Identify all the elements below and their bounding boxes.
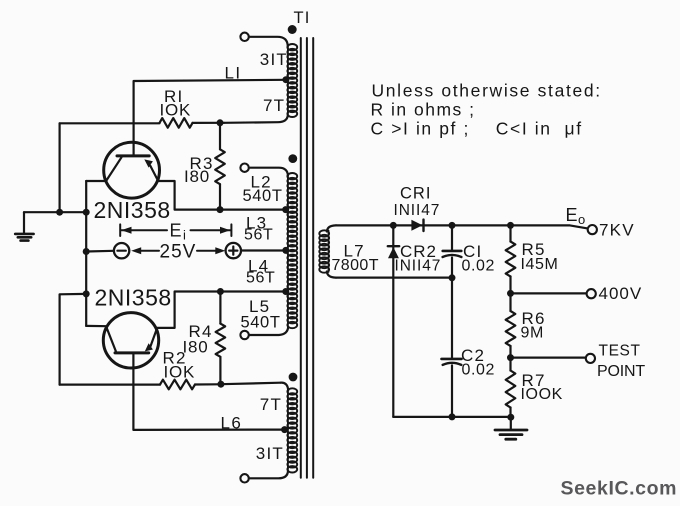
node R4 top junction (217, 288, 224, 295)
label C1 (463, 242, 482, 261)
label 540T (241, 314, 281, 332)
svg-text:LI: LI (225, 64, 242, 83)
wire plus to L3/L4 tap (241, 249, 286, 251)
label 7T (263, 96, 285, 115)
label L1 (225, 64, 242, 83)
node R2 branch junction (83, 290, 90, 297)
winding L7 (319, 230, 329, 272)
svg-text:E: E (566, 205, 578, 225)
svg-text:Unless otherwise stated:: Unless otherwise stated: (372, 81, 602, 101)
label 31T (260, 50, 288, 69)
node test point junction (507, 354, 514, 361)
wire test point (511, 357, 586, 359)
node L3/L4 tap (282, 247, 289, 254)
node ground junction (507, 414, 514, 421)
svg-text:POINT: POINT (597, 363, 645, 380)
wire L5 terminal to winding (249, 327, 288, 335)
node C1 branch (449, 222, 456, 229)
wire L7 bottom to C-string (336, 277, 452, 279)
winding 7T+31T (bottom) (287, 388, 297, 472)
wire to source minus (86, 250, 114, 253)
node L2/L3 tap (282, 206, 289, 213)
node R4 bottom junction (217, 381, 224, 388)
svg-text:IOK: IOK (164, 363, 196, 382)
node L1 tap (282, 76, 289, 83)
terminal L2 (240, 164, 248, 172)
wire ground rail (393, 416, 511, 418)
resistor R2 10K (60, 380, 218, 390)
capacitor C1 0.02 (443, 225, 462, 277)
wire L2 terminal to winding (249, 168, 288, 176)
label 180 R4 (183, 338, 209, 357)
label 31T bottom (256, 444, 284, 463)
T1 label (294, 9, 311, 27)
transistor Q2 2N1358 (103, 313, 158, 368)
arrow into minus (131, 247, 159, 254)
resistor R1 10K (60, 118, 224, 128)
diode CR1 1N1147 (411, 220, 423, 231)
wire ground run (24, 211, 86, 213)
node source minus junction (83, 248, 90, 255)
label C2 (461, 346, 485, 365)
svg-text:2NI358: 2NI358 (94, 197, 171, 223)
node C2 ground (449, 413, 456, 420)
label 180 R3 (184, 167, 210, 186)
svg-text:IOK: IOK (160, 101, 192, 120)
svg-text:i: i (183, 228, 186, 243)
label 7T bottom (260, 395, 282, 414)
winding 31T+7T (287, 44, 297, 117)
label 540T (243, 187, 283, 205)
node L6 tap (281, 426, 288, 433)
wire Q2 emitter (86, 325, 107, 328)
polarity dot winding group 1 (288, 25, 297, 34)
node R1-R3-7T junction (217, 119, 224, 126)
Ei dimension arrows (120, 224, 231, 236)
label 10K (160, 101, 192, 120)
label POINT (597, 363, 645, 380)
SeekIC watermark (561, 478, 678, 500)
label R1 (164, 87, 183, 106)
wire 400V (511, 292, 587, 294)
wire L7 bottom (327, 272, 336, 278)
terminal TEST POINT (586, 354, 595, 363)
diode CR2 1N1147 (388, 225, 399, 417)
svg-text:I45M: I45M (521, 256, 559, 273)
svg-text:540T: 540T (243, 187, 283, 205)
label 0.02 C1 (462, 258, 496, 275)
svg-text:540T: 540T (241, 314, 281, 332)
transistor Q1 2N1358 (104, 142, 160, 198)
label 56T (246, 270, 275, 287)
transformer T1 core (301, 38, 313, 478)
winding group1 bottom exit wire (224, 116, 288, 123)
label Q1 2N1358 (94, 197, 171, 223)
label 7KV (599, 221, 635, 240)
ground symbol right (495, 417, 527, 439)
svg-text:0.02: 0.02 (462, 362, 496, 379)
svg-text:2NI358: 2NI358 (95, 285, 172, 311)
svg-text:I80: I80 (184, 167, 210, 186)
svg-text:E: E (170, 221, 182, 241)
label Q2 2N1358 (95, 285, 172, 311)
label CR2 (400, 242, 437, 261)
label L7 (344, 242, 365, 261)
label 9M (521, 325, 544, 342)
label L6 (221, 414, 243, 433)
terminal top-left (240, 33, 248, 41)
winding group3 top entry wire (281, 383, 289, 391)
label 100K (521, 386, 563, 403)
label Ei (170, 221, 187, 243)
terminal 400V (587, 289, 596, 298)
node R5 branch (507, 222, 514, 229)
wire L1 and base lead Q1 (134, 80, 286, 155)
terminal bottom-left (240, 474, 248, 482)
svg-text:3IT: 3IT (256, 444, 284, 463)
resistor R6 9M (506, 293, 516, 357)
resistor R3 180 (215, 123, 225, 210)
node L4/L5 tap (282, 288, 289, 295)
terminal 7KV (588, 225, 597, 234)
polarity dot winding group 2 (288, 154, 297, 163)
svg-text:C >I in pf ; C<I in μf: C >I in pf ; C<I in μf (371, 119, 583, 139)
svg-text:R in ohms ;: R in ohms ; (371, 100, 476, 120)
wire R2 branch (60, 294, 87, 385)
wire C1 to C2 (451, 278, 453, 358)
node L7/C junction (449, 274, 456, 281)
label 56T (244, 227, 273, 244)
resistor R7 100K (506, 358, 516, 418)
polarity dot winding group 3 (289, 373, 298, 382)
winding L2-L5 (287, 173, 297, 328)
wire top terminal to winding (249, 37, 288, 46)
wire R1 left drop (58, 123, 60, 212)
svg-text:TEST: TEST (599, 343, 641, 360)
label 400V (599, 284, 643, 303)
label R3 (190, 154, 214, 173)
svg-text:0.02: 0.02 (462, 258, 496, 275)
wire Q1 emitter (86, 180, 106, 182)
svg-text:3IT: 3IT (260, 50, 288, 69)
resistor R4 180 (216, 292, 226, 385)
wire Q2 base to L6 (133, 354, 284, 430)
svg-text:SeekIC.com: SeekIC.com (561, 478, 678, 500)
svg-text:7KV: 7KV (599, 221, 635, 240)
terminal L5 (240, 331, 248, 339)
label R6 (522, 309, 546, 328)
svg-text:7T: 7T (260, 395, 282, 414)
wire bottom terminal to winding (249, 471, 288, 478)
source minus terminal (114, 243, 129, 258)
resistor R5 145M (506, 225, 516, 293)
label Eo (566, 205, 586, 227)
node bias-ground junction (56, 209, 63, 216)
wire left emitter rail (85, 181, 87, 326)
svg-text:L6: L6 (221, 414, 243, 433)
wire Q2 collector to L4/L5 tap (157, 292, 286, 328)
wire R2 to winding (221, 383, 281, 385)
label 10K R2 (164, 363, 196, 382)
wire L7 top (327, 225, 336, 231)
label R5 (522, 240, 546, 259)
label 1N1147 CR2 (395, 258, 442, 275)
label 7800T (332, 257, 379, 274)
label 0.02 C2 (462, 362, 496, 379)
arrow into plus (197, 247, 225, 254)
label R4 (189, 322, 213, 341)
node emitter rail at ground (83, 209, 90, 216)
node R3 bottom junction (217, 206, 224, 213)
svg-text:9M: 9M (521, 325, 544, 342)
label R7 (522, 371, 546, 390)
svg-text:56T: 56T (244, 227, 273, 244)
svg-text:o: o (578, 212, 585, 227)
node 400V junction (507, 290, 514, 297)
svg-text:IOOK: IOOK (521, 386, 563, 403)
label L5 (249, 297, 270, 316)
node CR2 branch (390, 222, 397, 229)
label 145M (521, 256, 559, 273)
ground symbol left (15, 212, 33, 240)
svg-text:400V: 400V (599, 284, 643, 303)
label R2 (163, 349, 187, 368)
label TEST (599, 343, 641, 360)
label 25V (160, 242, 197, 263)
svg-text:7800T: 7800T (332, 257, 379, 274)
label L3 (246, 214, 267, 233)
svg-text:TI: TI (294, 9, 311, 27)
label L2 (251, 173, 272, 192)
note text (371, 81, 602, 139)
svg-text:56T: 56T (246, 270, 275, 287)
label L4 (248, 257, 269, 276)
wire Q1 collector to L2/L3 tap (157, 181, 286, 210)
svg-text:INII47: INII47 (394, 202, 441, 219)
svg-text:INII47: INII47 (395, 258, 442, 275)
svg-text:CRI: CRI (400, 185, 431, 203)
source plus terminal (226, 243, 241, 258)
wire HV rail (336, 225, 588, 228)
label 1N1147 CR1 (394, 202, 441, 219)
capacitor C2 0.02 (442, 359, 462, 417)
svg-text:25V: 25V (160, 242, 197, 263)
label CR1 (400, 185, 431, 203)
svg-text:7T: 7T (263, 96, 285, 115)
